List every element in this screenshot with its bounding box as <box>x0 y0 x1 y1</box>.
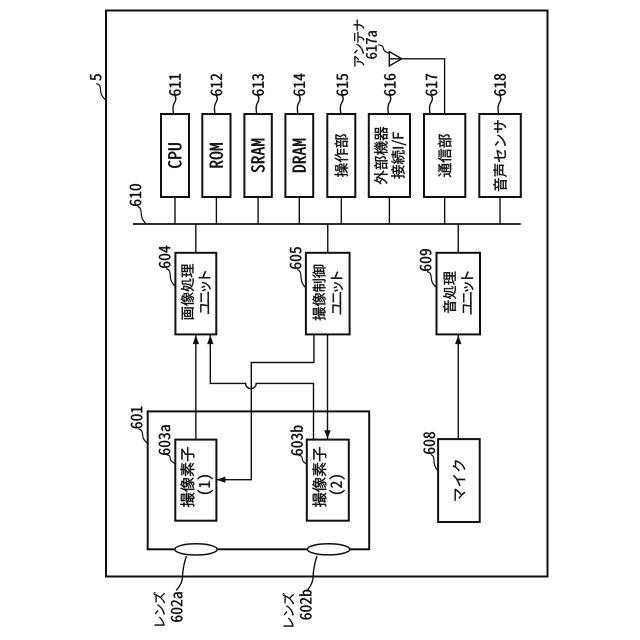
wire 605 to 603a (control) <box>217 334 314 479</box>
wire 611 to bus <box>174 197 176 224</box>
wire antenna to 617 <box>389 59 444 114</box>
lens 602a ellipse <box>175 544 217 555</box>
label 612 <box>211 74 223 96</box>
label 603b <box>291 426 303 456</box>
wire 613 to bus <box>257 197 259 224</box>
unit box 613 SRAM <box>244 114 271 197</box>
lens 602b ellipse <box>307 544 349 555</box>
unit box 604 画像処理ユニット <box>175 253 216 335</box>
wire bus to 609 <box>457 224 459 253</box>
label 603a <box>159 425 171 454</box>
wire 612 to bus <box>215 197 217 224</box>
label 614 <box>294 74 306 96</box>
label アンテナ <box>354 20 365 67</box>
label 616 <box>384 74 396 96</box>
label 613 <box>252 74 264 96</box>
label 5 (device) <box>90 74 101 80</box>
unit box 615 操作部 <box>327 114 355 197</box>
label 618 <box>494 74 506 96</box>
wire 618 to bus <box>499 197 501 224</box>
unit box 611 CPU <box>161 114 189 197</box>
wire 617 to bus <box>444 197 446 224</box>
image sensor box 603b 撮像素子(2) <box>307 440 349 521</box>
label 617a <box>366 31 377 58</box>
wire 605 to 603b (control) <box>327 334 329 439</box>
wire 614 to bus <box>298 197 300 224</box>
unit box 609 音処理ユニット <box>437 253 481 335</box>
unit box 614 DRAM <box>285 114 313 197</box>
unit box 605 撮像制御ユニット <box>306 253 350 335</box>
outer frame (device 5) <box>106 11 548 577</box>
label 604 <box>159 246 171 268</box>
label レンズ 602a <box>153 592 165 626</box>
antenna symbol 617a <box>389 52 401 66</box>
microphone box 608 マイク <box>438 439 480 522</box>
wire bus to 604 <box>195 224 197 253</box>
label 611 <box>169 74 181 96</box>
unit box 616 外部機器接続I/F <box>369 114 410 197</box>
label 601 <box>131 407 143 429</box>
wire 608 to 609 (audio) <box>457 335 459 439</box>
camera unit box 601 <box>148 411 370 549</box>
wire 616 to bus <box>388 197 390 224</box>
bus 610 <box>133 223 521 225</box>
image sensor box 603a 撮像素子(1) <box>175 440 216 521</box>
label レンズ 602b <box>282 593 294 627</box>
label 608 <box>424 432 436 454</box>
label 609 <box>420 249 432 271</box>
label 615 <box>337 74 349 96</box>
label 610 <box>130 184 142 206</box>
wire 615 to bus <box>340 197 342 224</box>
wire 603a to 604 (image data) <box>195 335 197 440</box>
wire bus to 605 <box>327 224 329 253</box>
unit box 618 音声センサ <box>479 114 521 197</box>
wire 603b to 604 (image data, hop over control wire) <box>210 335 313 440</box>
label 605 <box>290 247 302 269</box>
unit box 612 ROM <box>202 114 230 197</box>
unit box 617 通信部 <box>424 114 465 197</box>
label 617 <box>426 74 438 96</box>
